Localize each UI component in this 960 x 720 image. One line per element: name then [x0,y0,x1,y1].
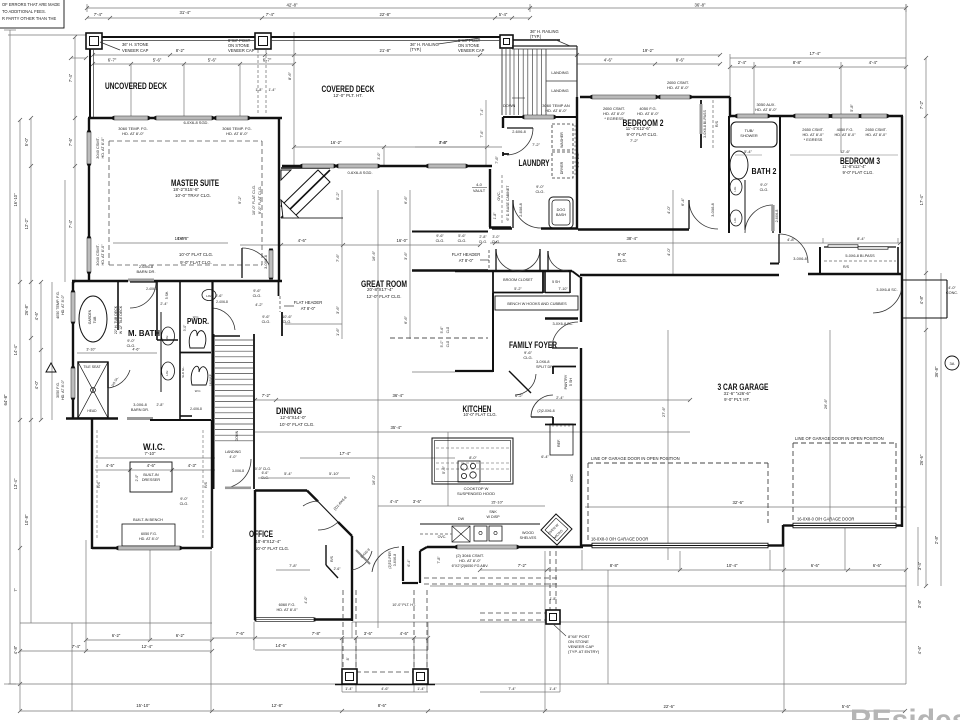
room label office [249,529,289,551]
svg-text:UNCOVERED DECK: UNCOVERED DECK [105,81,167,92]
svg-text:13’-4”: 13’-4” [13,478,18,489]
wall master suite north [88,117,282,119]
svg-text:8’-0”: 8’-0” [469,456,477,460]
window mbath west 4050 [71,292,75,322]
svg-text:(2)1-6X6-8: (2)1-6X6-8 [333,495,348,511]
svg-text:1’-4”: 1’-4” [549,687,557,691]
svg-text:36’-4”: 36’-4” [393,393,405,398]
svg-text:HEAD: HEAD [87,409,97,413]
svg-text:2’-6”: 2’-6” [334,567,341,571]
stairs arch door [225,459,269,489]
svg-text:10’-8”X12’-4”: 10’-8”X12’-4” [255,539,281,544]
svg-text:HD. AT 8’-0”: HD. AT 8’-0” [834,132,856,137]
svg-text:LAUNDRY: LAUNDRY [519,158,550,168]
fireplace corner great room [281,168,343,218]
svg-text:BENCH W HOOKS AND CUBBIES: BENCH W HOOKS AND CUBBIES [507,302,567,306]
svg-text:0-6X6-8 SGD.: 0-6X6-8 SGD. [347,170,372,175]
svg-text:4’-0”: 4’-0” [304,596,308,604]
svg-text:(2)2-0X6-8: (2)2-0X6-8 [537,409,554,413]
nook header dashed [488,250,490,270]
dimension line bottom-middle garage front [478,551,908,692]
front door arc [372,547,399,572]
svg-text:12’-0” FLAT CLG.: 12’-0” FLAT CLG. [366,294,401,299]
svg-text:WOOD: WOOD [522,531,534,535]
broom closet [493,249,543,293]
svg-text:CLG.: CLG. [479,240,487,244]
svg-text:36’-8”: 36’-8” [695,3,707,8]
svg-text:5’-6”: 5’-6” [458,234,466,238]
svg-text:7’-4”: 7’-4” [266,12,275,17]
marker circle 3A [945,356,959,370]
svg-text:HD. AT 8’-0”: HD. AT 8’-0” [545,108,567,113]
room label bedroom 3 [840,156,880,175]
label bedroom3 door [787,237,807,261]
dimension line garage interior verticals [440,326,906,560]
wall bedroom2 northeast corner step [729,97,731,116]
svg-text:17’-4”: 17’-4” [919,194,924,205]
label entry post [553,624,600,654]
svg-text:4’-8”: 4’-8” [787,237,795,242]
flat header label nook [452,252,489,263]
svg-text:9’-0” FLAT CLG.: 9’-0” FLAT CLG. [626,132,657,137]
room label family foyer [509,340,557,360]
svg-text:CLG.: CLG. [283,320,292,324]
svg-text:BATH 2: BATH 2 [752,166,777,176]
split door foyer [509,360,554,395]
svg-text:VAULT: VAULT [473,188,486,193]
svg-text:5 SH: 5 SH [569,378,573,387]
label bedroom2 window left [603,106,625,121]
svg-text:1’-6”: 1’-6” [335,327,340,336]
office closet door arc [352,551,372,570]
svg-text:10’-0” CLG.: 10’-0” CLG. [253,467,271,471]
svg-text:17’-4”: 17’-4” [810,51,822,56]
svg-text:17’-4”: 17’-4” [340,451,352,456]
window bedroom3 north d [861,114,887,118]
dimension verticals bottom left [20,527,845,711]
svg-text:4’-6”: 4’-6” [439,140,447,145]
dog bash [549,197,573,228]
shower door arc [108,370,130,388]
wall bath2 bedroom3 divider [779,116,781,233]
svg-text:8’-6”: 8’-6” [378,703,387,708]
svg-text:6’-4”: 6’-4” [680,197,685,206]
window master north 3060 [114,116,148,120]
svg-text:2’-8”: 2’-8” [479,235,487,239]
svg-text:10’-0” FLAT CLG.: 10’-0” FLAT CLG. [463,412,497,417]
svg-text:12’-6”X14’-0”: 12’-6”X14’-0” [280,415,307,420]
svg-text:9’-0”: 9’-0” [127,339,135,343]
wall mbath south [66,417,118,419]
svg-text:5’-4”: 5’-4” [284,471,292,476]
svg-text:9’-0” FLAT CLG.: 9’-0” FLAT CLG. [257,186,262,214]
dimension line bottom-left tiers [18,631,430,692]
label window master b [222,126,251,136]
svg-text:BARN DR.: BARN DR. [136,269,155,274]
label rotated clg west great room [251,185,262,215]
svg-text:BARN DR.: BARN DR. [131,408,149,412]
svg-text:4’-2”: 4’-2” [255,303,263,307]
kitchen south counter [420,500,545,543]
svg-text:6” D. BASE CABINET: 6” D. BASE CABINET [506,185,510,221]
svg-text:HD. AT 8’-0”: HD. AT 8’-0” [276,607,298,612]
svg-text:10’-6”: 10’-6” [282,315,292,319]
wall garage north west part [580,274,779,276]
door laundry arc [507,128,533,155]
svg-text:36’-8”: 36’-8” [934,366,939,377]
label window master west a [95,137,105,159]
door pwdr arc [212,308,235,330]
svg-text:VENEER CAP: VENEER CAP [122,48,149,53]
label 8x8 post on stone NW [228,38,255,53]
wall covered deck south / great room north [282,165,492,167]
room label covered deck [322,84,375,98]
svg-text:HD. AT 8’-0”: HD. AT 8’-0” [755,107,777,112]
svg-text:LAV.: LAV. [733,186,737,191]
svg-text:OF ERRORS THAT ARE MADE: OF ERRORS THAT ARE MADE [2,2,60,7]
pantry kitchen [515,366,576,482]
svg-text:14’-6”: 14’-6” [276,643,288,648]
label 36 H railing typ [410,38,480,52]
svg-text:5’-4”: 5’-4” [744,149,752,154]
wall garage south 16 door [783,517,903,528]
label window 4050 temp [56,291,65,319]
dimension verticals uncovered deck [131,32,294,166]
svg-text:4’-4”: 4’-4” [390,499,399,504]
svg-text:CLG.: CLG. [262,320,271,324]
svg-text:2-6X6-8: 2-6X6-8 [775,210,779,223]
lav mbath upper [162,327,175,345]
svg-text:2-6X6-8: 2-6X6-8 [519,203,523,217]
wall bedroom3 north [729,115,903,117]
svg-text:W.I.C.: W.I.C. [143,442,165,453]
label 4-0 vault [415,140,510,244]
wall nook top [412,231,488,233]
wall laundry south east part [541,227,578,229]
kitchen island [432,438,513,484]
svg-text:2’-4”: 2’-4” [556,396,564,400]
svg-text:4’-6”: 4’-6” [604,58,613,63]
svg-text:SHOWER: SHOWER [740,133,758,138]
svg-text:7’: 7’ [13,588,18,591]
svg-text:CLG: CLG [446,326,450,333]
svg-text:9’-6”: 9’-6” [436,234,444,238]
svg-text:HD. AT 8’-0”: HD. AT 8’-0” [100,244,105,266]
svg-text:4’-3”: 4’-3” [188,463,197,468]
svg-text:5’-2”: 5’-2” [514,287,522,291]
cooktop kitchen [457,461,495,496]
svg-text:38’-4”: 38’-4” [627,236,639,241]
svg-text:7’-4”: 7’-4” [72,644,81,649]
svg-text:2’-0”: 2’-0” [135,475,139,482]
wall pwdr wc divider [180,352,211,354]
dimension line mid-top tier 8'-2 21'-8 19'-2 [91,48,722,66]
svg-text:DOWN: DOWN [235,430,239,441]
svg-text:W DISP: W DISP [486,515,500,519]
post stone veneer cap mid [255,33,271,49]
office dims [253,467,350,570]
svg-text:9’-0” PLT. HT.: 9’-0” PLT. HT. [724,397,750,402]
svg-text:6’-6”: 6’-6” [403,195,408,204]
svg-text:HD. AT 8’-0”: HD. AT 8’-0” [122,131,144,136]
svg-text:SUSPENDED HOOD: SUSPENDED HOOD [457,491,495,496]
wall entry west [402,546,404,581]
svg-text:6050 F.G.: 6050 F.G. [141,532,157,536]
wall garage west mid [580,348,582,547]
svg-text:4’-6”: 4’-6” [147,463,156,468]
svg-text:1’-4”: 1’-4” [268,88,276,92]
closet door diagonal entry [356,548,371,564]
svg-text:HD. AT 8’-0”: HD. AT 8’-0” [865,132,887,137]
svg-text:3’-6”: 3’-6” [403,251,408,260]
svg-text:5’-8”: 5’-8” [850,104,854,112]
barn door wic [127,403,153,420]
room label kitchen [463,404,497,417]
svg-text:DOWN: DOWN [503,103,516,108]
svg-text:6-0X6-8 SGD.: 6-0X6-8 SGD. [183,120,208,125]
entry post stone [546,610,560,624]
label laundry clg [535,184,544,194]
wall office east [351,536,353,621]
svg-text:8’-6”: 8’-6” [676,58,685,63]
dimension line bottom long lines [8,586,907,713]
svg-text:7’-2”: 7’-2” [630,138,639,143]
svg-text:R/S: R/S [715,120,719,127]
svg-text:2-4X6-8: 2-4X6-8 [190,407,202,411]
svg-text:6’-4”: 6’-4” [541,455,549,459]
svg-text:LAV.: LAV. [733,217,737,222]
wall bedroom2 north [580,96,730,98]
dimension line dining/kitchen 36'-4 35'-4 17'-4 [253,197,692,506]
svg-text:LANDING: LANDING [551,70,568,75]
wall wic east [211,420,213,548]
svg-text:4’-6”: 4’-6” [34,311,39,320]
kitchen south wall [427,546,583,548]
svg-text:15’-10”: 15’-10” [491,500,504,505]
wall toilet room [157,282,178,340]
svg-text:35’-4”: 35’-4” [391,425,403,430]
svg-text:22’-6”: 22’-6” [664,704,676,709]
svg-text:7’-4”: 7’-4” [68,73,73,82]
lav mbath lower [162,362,175,380]
wall office south [255,618,352,620]
built-in dresser [130,462,172,492]
svg-text:16’-2”: 16’-2” [331,140,343,145]
svg-text:W.C.: W.C. [195,389,202,393]
post stone veneer cap stairs [500,35,513,48]
svg-text:TUB: TUB [93,316,97,324]
svg-text:2-6X6-8: 2-6X6-8 [512,130,526,134]
svg-text:7’-6”: 7’-6” [335,253,340,262]
labels clg hall small [253,289,293,324]
svg-text:18-0X8-0 O/H GARAGE DOOR: 18-0X8-0 O/H GARAGE DOOR [591,537,648,542]
labels bedroom3 window dims [735,104,898,155]
label 36 H railing at stairs [530,29,570,46]
svg-text:4’-6”: 4’-6” [298,238,307,243]
labels near pwdr [146,287,228,411]
label master flat clg dims [175,195,242,265]
svg-text:VENEER CAP: VENEER CAP [458,48,485,53]
svg-text:6’-7”: 6’-7” [263,58,272,63]
wall entry south [402,582,418,584]
svg-text:3’-4”: 3’-4” [917,561,922,570]
svg-text:8’-2”: 8’-2” [176,48,185,53]
wall pwdr east / foyer hall [211,282,213,420]
svg-text:4’-5”: 4’-5” [106,463,115,468]
wc room master [181,366,208,393]
svg-text:CONC.: CONC. [946,291,958,295]
dimension line top tier 2 [85,10,532,20]
wall office north [255,489,307,491]
svg-text:9’-6”: 9’-6” [262,315,270,319]
svg-text:9’-0” FLAT CLG.: 9’-0” FLAT CLG. [842,170,873,175]
svg-text:1’-4”: 1’-4” [345,687,353,691]
wall great room east [489,169,511,228]
window master west 3040 a [87,132,91,164]
dimension line left vertical tiers [3,30,88,686]
svg-text:CLG.: CLG. [535,189,544,194]
svg-text:3’-6”: 3’-6” [364,631,373,636]
svg-text:6’-7”: 6’-7” [108,58,117,63]
svg-text:FLAT HEADER: FLAT HEADER [452,252,480,257]
svg-text:7’-4”: 7’-4” [480,108,484,116]
svg-text:7’-8”: 7’-8” [312,631,321,636]
svg-text:7’-6”: 7’-6” [480,130,484,138]
svg-text:7’-4”: 7’-4” [508,687,516,691]
svg-text:HD. AT 8’-0”: HD. AT 8’-0” [459,558,481,563]
triangle marker mbath [46,363,56,372]
svg-text:9’-0” FLAT CLG.: 9’-0” FLAT CLG. [180,260,212,265]
svg-text:8’-8”: 8’-8” [610,563,619,568]
svg-text:CLG.: CLG. [180,502,189,506]
svg-text:5’-6”: 5’-6” [153,58,162,63]
bath2 vanity [730,179,745,230]
bedroom2 closet walls [700,100,720,148]
svg-text:5’-2”: 5’-2” [335,191,340,200]
door office arc [303,501,338,530]
post stone veneer cap NW [86,33,102,49]
svg-text:3’-10”: 3’-10” [86,348,96,352]
svg-text:10’-0” FLAT CLG.: 10’-0” FLAT CLG. [179,252,213,257]
kitchen south window [457,545,517,549]
window master north 3060 b [216,116,248,120]
svg-text:LANDING: LANDING [225,450,241,454]
svg-text:7’-8”: 7’-8” [437,556,441,564]
svg-text:HD. AT 8’-0”: HD. AT 8’-0” [61,294,65,315]
washer dryer boxes [552,124,580,178]
svg-text:16’-10”: 16’-10” [13,193,18,207]
room label master suite [171,178,219,198]
svg-text:BUILT-IN: BUILT-IN [143,473,159,477]
svg-text:20’-8”X17’-4”: 20’-8”X17’-4” [367,287,394,292]
wall garage south 18 door [581,537,784,548]
room label bedroom 2 [623,118,664,143]
wall foyer west [492,293,494,372]
wall bedroom2 south [578,228,689,230]
svg-text:16’-8”: 16’-8” [175,236,186,241]
wall garage west upper [580,277,582,322]
porch dims [346,603,416,660]
window master north sgd [156,116,212,120]
svg-text:7’-4”: 7’-4” [68,219,73,228]
svg-text:CLG.: CLG. [760,188,769,192]
svg-text:5’-4”: 5’-4” [499,12,508,17]
wall foyer south [412,371,493,372]
svg-text:HD. AT 8’-0”: HD. AT 8’-0” [667,85,689,90]
svg-text:3’-0”: 3’-0” [377,152,381,160]
door bedroom2 arc [689,200,718,229]
label bedroom2 window right above [667,80,689,90]
svg-text:R/S: R/S [97,481,101,488]
wall laundry west upper [503,117,509,156]
svg-text:9’-0”: 9’-0” [760,183,768,187]
svg-text:CLG.: CLG. [458,239,467,243]
garage door 16 open position dashed [793,436,896,520]
window great room north a [302,164,334,168]
patio dashed lines [424,551,560,620]
svg-text:10’-0” FLAT CLG.: 10’-0” FLAT CLG. [279,422,314,427]
wall stairs/laundry divider [503,116,576,118]
dimension tier covered deck bottom [292,100,489,166]
svg-text:CLG.: CLG. [253,294,262,298]
label window master west b [95,244,105,266]
svg-text:W 12” TILE DECK: W 12” TILE DECK [119,305,123,334]
svg-text:32’-6”: 32’-6” [733,500,745,505]
svg-text:31’-6” ”x26’-6”: 31’-6” ”x26’-6” [724,391,751,396]
svg-text:OVC.: OVC. [497,191,501,200]
svg-text:HD. AT 8’-0”: HD. AT 8’-0” [100,137,105,159]
svg-text:* EGRESS: * EGRESS [804,137,823,142]
svg-text:5’-10”: 5’-10” [329,471,340,476]
wall bath2 west [728,116,730,233]
svg-text:1’-8”: 1’-8” [255,88,263,92]
wall pwdr west [179,282,181,419]
svg-text:9’-0”: 9’-0” [180,497,188,501]
svg-text:4’-0”: 4’-0” [34,380,39,389]
svg-text:3’-8”: 3’-8” [917,599,922,608]
svg-text:10’-0” TRAY CLG.: 10’-0” TRAY CLG. [175,193,211,198]
svg-text:HD. AT 8’-0”: HD. AT 8’-0” [61,379,65,400]
svg-text:R/S: R/S [843,265,850,269]
svg-text:16’-0”: 16’-0” [397,238,409,243]
window bedroom3 north c [832,114,859,118]
flat header label great room [284,300,322,311]
svg-text:7’-6”: 7’-6” [68,137,73,146]
svg-text:42’-8”: 42’-8” [287,3,299,8]
wall office angled lower [338,522,352,536]
svg-text:BASH: BASH [556,213,567,217]
shower master [78,362,108,418]
svg-text:6’-2”: 6’-2” [515,393,523,398]
porch slab edge [335,684,435,686]
dimension line right vertical tiers [917,56,941,654]
label wic clg [180,497,189,506]
svg-text:26’-8”: 26’-8” [24,304,29,315]
wall wic west [91,418,93,549]
svg-text:3-0X6-8 SC.: 3-0X6-8 SC. [553,322,574,326]
wall nook bottom [412,269,488,271]
svg-text:3-6X6-8: 3-6X6-8 [393,554,397,567]
svg-text:11’-8”x12’-4”: 11’-8”x12’-4” [842,164,866,169]
svg-text:4’-8”: 4’-8” [919,295,924,304]
svg-text:10’-8”: 10’-8” [24,514,29,525]
wall stairs top [214,335,240,337]
svg-text:31’-4”: 31’-4” [180,10,192,15]
svg-text:1’-8”: 1’-8” [550,597,557,601]
window great room north b [428,164,466,168]
svg-text:9’-6”: 9’-6” [618,252,627,257]
svg-text:4’-6”: 4’-6” [917,645,922,654]
